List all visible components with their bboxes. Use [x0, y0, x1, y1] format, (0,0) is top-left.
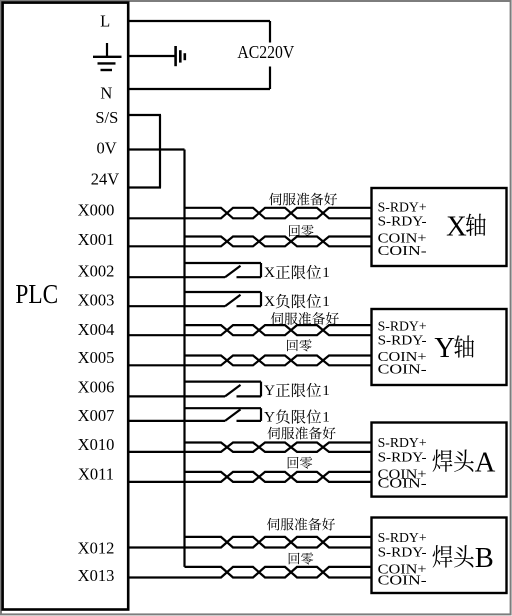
- svg-text:24V: 24V: [91, 169, 120, 188]
- svg-text:0V: 0V: [97, 139, 117, 158]
- label servo-ready (X010): [268, 427, 336, 440]
- label return-zero (X005): [287, 339, 312, 351]
- wire 24V: [128, 186, 161, 188]
- svg-text:X006: X006: [78, 378, 115, 397]
- wire twisted pair X004 conductor A: [185, 325, 372, 335]
- label X-axis servo title: [446, 211, 486, 242]
- label Y-axis servo title: [434, 333, 474, 364]
- wire 0V: [128, 148, 184, 150]
- label servo-ready (X012): [267, 518, 335, 531]
- label Y negative limit 1: [264, 408, 330, 425]
- svg-text:X: X: [264, 293, 275, 310]
- wire twisted pair X011 conductor A: [185, 472, 372, 482]
- svg-text:1: 1: [322, 408, 330, 425]
- label servo-ready (X000): [269, 193, 337, 206]
- svg-text:X010: X010: [78, 435, 115, 454]
- ground G1 (inside PLC): [93, 43, 122, 70]
- limit switch SQ4 X007: [128, 408, 261, 421]
- wire twisted pair X000 conductor A: [185, 208, 372, 219]
- wire twisted pair X013 conductor B: [128, 567, 371, 578]
- wire twisted pair X010 conductor A: [185, 443, 372, 452]
- svg-text:X012: X012: [78, 538, 115, 557]
- servo drive box Y-axis servo: [372, 309, 507, 385]
- label welding head A servo title: [433, 447, 496, 478]
- svg-text:X002: X002: [78, 261, 115, 280]
- svg-text:X004: X004: [78, 320, 115, 339]
- svg-text:S-RDY+: S-RDY+: [378, 201, 427, 216]
- svg-text:1: 1: [322, 293, 330, 310]
- wire AC vertical upper: [269, 21, 271, 43]
- wire twisted pair X012 conductor B: [128, 537, 371, 548]
- svg-text:S-RDY+: S-RDY+: [378, 320, 427, 335]
- servo drive box welding head B servo: [372, 518, 507, 594]
- servo drive box welding head A servo: [372, 423, 507, 497]
- limit switch SQ2 X003: [128, 292, 261, 306]
- svg-text:B: B: [475, 543, 494, 574]
- svg-text:X001: X001: [78, 230, 115, 249]
- svg-text:S-RDY-: S-RDY-: [378, 215, 427, 230]
- wire twisted pair X004 conductor B: [128, 325, 371, 335]
- wire twisted pair X012 conductor A: [185, 537, 372, 548]
- svg-text:PLC: PLC: [15, 279, 58, 309]
- servo drive box X-axis servo: [372, 188, 507, 266]
- svg-text:S/S: S/S: [95, 108, 118, 127]
- svg-text:COIN-: COIN-: [378, 477, 427, 492]
- wire twisted pair X001 conductor B: [128, 237, 371, 247]
- svg-text:X007: X007: [78, 406, 115, 425]
- wire twisted pair X005 conductor A: [185, 356, 372, 366]
- svg-text:1: 1: [322, 264, 330, 281]
- svg-text:X003: X003: [78, 290, 115, 309]
- svg-text:A: A: [475, 447, 496, 478]
- wire twisted pair X005 conductor B: [128, 356, 371, 366]
- svg-text:1: 1: [322, 382, 330, 399]
- svg-text:S-RDY-: S-RDY-: [378, 545, 427, 560]
- svg-text:Y: Y: [264, 382, 275, 399]
- svg-text:AC220V: AC220V: [237, 42, 294, 62]
- svg-text:Y: Y: [264, 408, 275, 425]
- svg-text:S-RDY-: S-RDY-: [378, 334, 427, 349]
- wire twisted pair X001 conductor A: [185, 237, 372, 247]
- svg-text:X: X: [446, 211, 467, 242]
- wire L: [128, 20, 270, 22]
- svg-text:COIN-: COIN-: [378, 244, 427, 259]
- svg-text:S-RDY+: S-RDY+: [378, 436, 427, 451]
- svg-text:Y: Y: [434, 333, 455, 364]
- label return-zero (X001): [289, 225, 314, 237]
- wire twisted pair X010 conductor B: [128, 443, 371, 452]
- label Y positive limit 1: [264, 382, 330, 399]
- label return-zero (X011): [288, 457, 313, 469]
- wire twisted pair X000 conductor B: [128, 208, 371, 219]
- svg-text:X000: X000: [78, 200, 115, 219]
- svg-text:N: N: [100, 83, 112, 102]
- svg-text:X011: X011: [78, 465, 114, 484]
- svg-text:COIN-: COIN-: [378, 362, 427, 377]
- svg-text:L: L: [100, 11, 110, 30]
- svg-text:X: X: [264, 264, 275, 281]
- svg-text:S-RDY-: S-RDY-: [378, 451, 427, 466]
- wire ground: [128, 55, 175, 57]
- label X positive limit 1: [264, 264, 330, 281]
- ground G2 (chassis, rotated): [176, 46, 185, 66]
- label X negative limit 1: [264, 293, 330, 310]
- wire twisted pair X013 conductor A: [185, 567, 372, 578]
- wire S/S-24V bracket: [159, 115, 161, 188]
- wire twisted pair X011 conductor B: [128, 472, 371, 482]
- PLC controller U1: [3, 3, 129, 610]
- label return-zero (X013): [289, 552, 314, 564]
- wire S/S: [128, 114, 161, 116]
- svg-text:X005: X005: [78, 348, 115, 367]
- label welding head B servo title: [433, 543, 494, 574]
- wire N: [128, 88, 270, 90]
- label servo-ready (X004): [271, 312, 339, 325]
- limit switch SQ1 X002: [128, 263, 261, 277]
- wire 0V rail: [183, 150, 185, 567]
- wire AC vertical lower: [269, 67, 271, 90]
- svg-text:S-RDY+: S-RDY+: [378, 531, 427, 546]
- svg-text:X013: X013: [78, 566, 115, 585]
- limit switch SQ3 X006: [128, 382, 261, 397]
- svg-text:COIN-: COIN-: [378, 573, 427, 588]
